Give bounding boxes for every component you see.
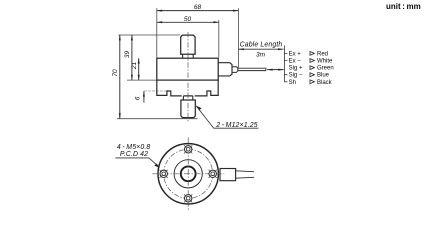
leader 2-M12x1.25 [196,106,258,130]
wire (extension line stud top, left) [118,34,180,36]
flange slot gap left [182,92,184,97]
centerline vertical (side view) [187,32,189,121]
svg-text:39: 39 [124,51,131,59]
dimension 70 [112,35,120,119]
dimension 68 [157,4,239,11]
wire (extension line stud bottom) [117,118,198,120]
svg-text:Red: Red [317,51,328,57]
svg-text:Sig −: Sig − [289,73,303,79]
top stud neck [183,54,194,58]
P.C.D 42 bolt circle (dash-dot) [164,149,213,198]
wire bundle bracket [285,45,288,81]
wire legend row Sig+ [289,66,334,72]
svg-text:Sh: Sh [289,80,296,86]
bolt hole E [209,170,217,178]
svg-text:Ex −: Ex − [289,59,302,65]
dimension 21 [131,58,139,80]
svg-text:Sig +: Sig + [289,66,303,72]
dimension 39 [124,35,132,80]
svg-text:70: 70 [112,69,119,77]
svg-text:2 - M12×1.25: 2 - M12×1.25 [215,122,258,129]
svg-text:68: 68 [194,4,202,11]
svg-text:Ex +: Ex + [289,51,302,57]
cable connector boot [218,63,232,76]
cable (bottom view) [236,171,254,178]
svg-text:4 - M5×0.8: 4 - M5×0.8 [117,144,151,151]
wire (extension line notch bottom, light) [144,90,167,92]
wire legend row Sh [289,80,333,86]
wire legend row Ex+ [289,51,328,57]
wire legend row Sig- [289,73,330,79]
svg-text:Cable Length: Cable Length [240,42,283,49]
wire (extension line flange top, left of body) [127,79,157,81]
dimension 6 [135,91,144,102]
connector strain relief [232,67,238,73]
body block [157,58,218,80]
svg-text:3m: 3m [256,52,266,59]
bolt hole S [184,194,192,202]
wire (extension line right of body for 50 dim) [218,20,220,58]
svg-text:Blue: Blue [317,73,330,79]
svg-text:White: White [317,59,333,65]
top stud [181,35,195,54]
bottom stud (2-M12 thread) [181,100,195,118]
svg-text:6: 6 [135,96,142,100]
cable (side view) [238,68,266,70]
leader 4-M5x0.8 P.C.D 42 [115,144,159,168]
outer circle [158,144,218,204]
wire (extension line right, cable start, for 68 dim and Cable Length) [237,8,239,67]
bolt hole N [184,145,192,153]
svg-text:21: 21 [131,62,138,71]
wire (extension line left of body for 68/50 dims) [156,8,158,57]
connector (bottom view) [220,169,236,181]
svg-text:50: 50 [184,16,192,23]
flange slot gap right [193,92,195,97]
center hole [181,166,196,181]
centerline horizontal (bottom view) [152,173,224,175]
svg-text:P.C.D 42: P.C.D 42 [120,151,148,158]
Cable Length dimension [238,42,283,59]
bottom stud neck [183,96,192,100]
svg-text:Black: Black [317,80,333,86]
svg-text:Green: Green [317,66,334,72]
svg-text:unit : mm: unit : mm [386,2,421,11]
bolt hole W [160,170,168,178]
flange band with notches [157,80,218,96]
centerline vertical (bottom view) [187,137,189,210]
boss circle [174,160,202,188]
dimension 50 [157,16,219,23]
cable-to-wires pointer [267,69,283,71]
wire legend row Ex- [289,59,333,65]
